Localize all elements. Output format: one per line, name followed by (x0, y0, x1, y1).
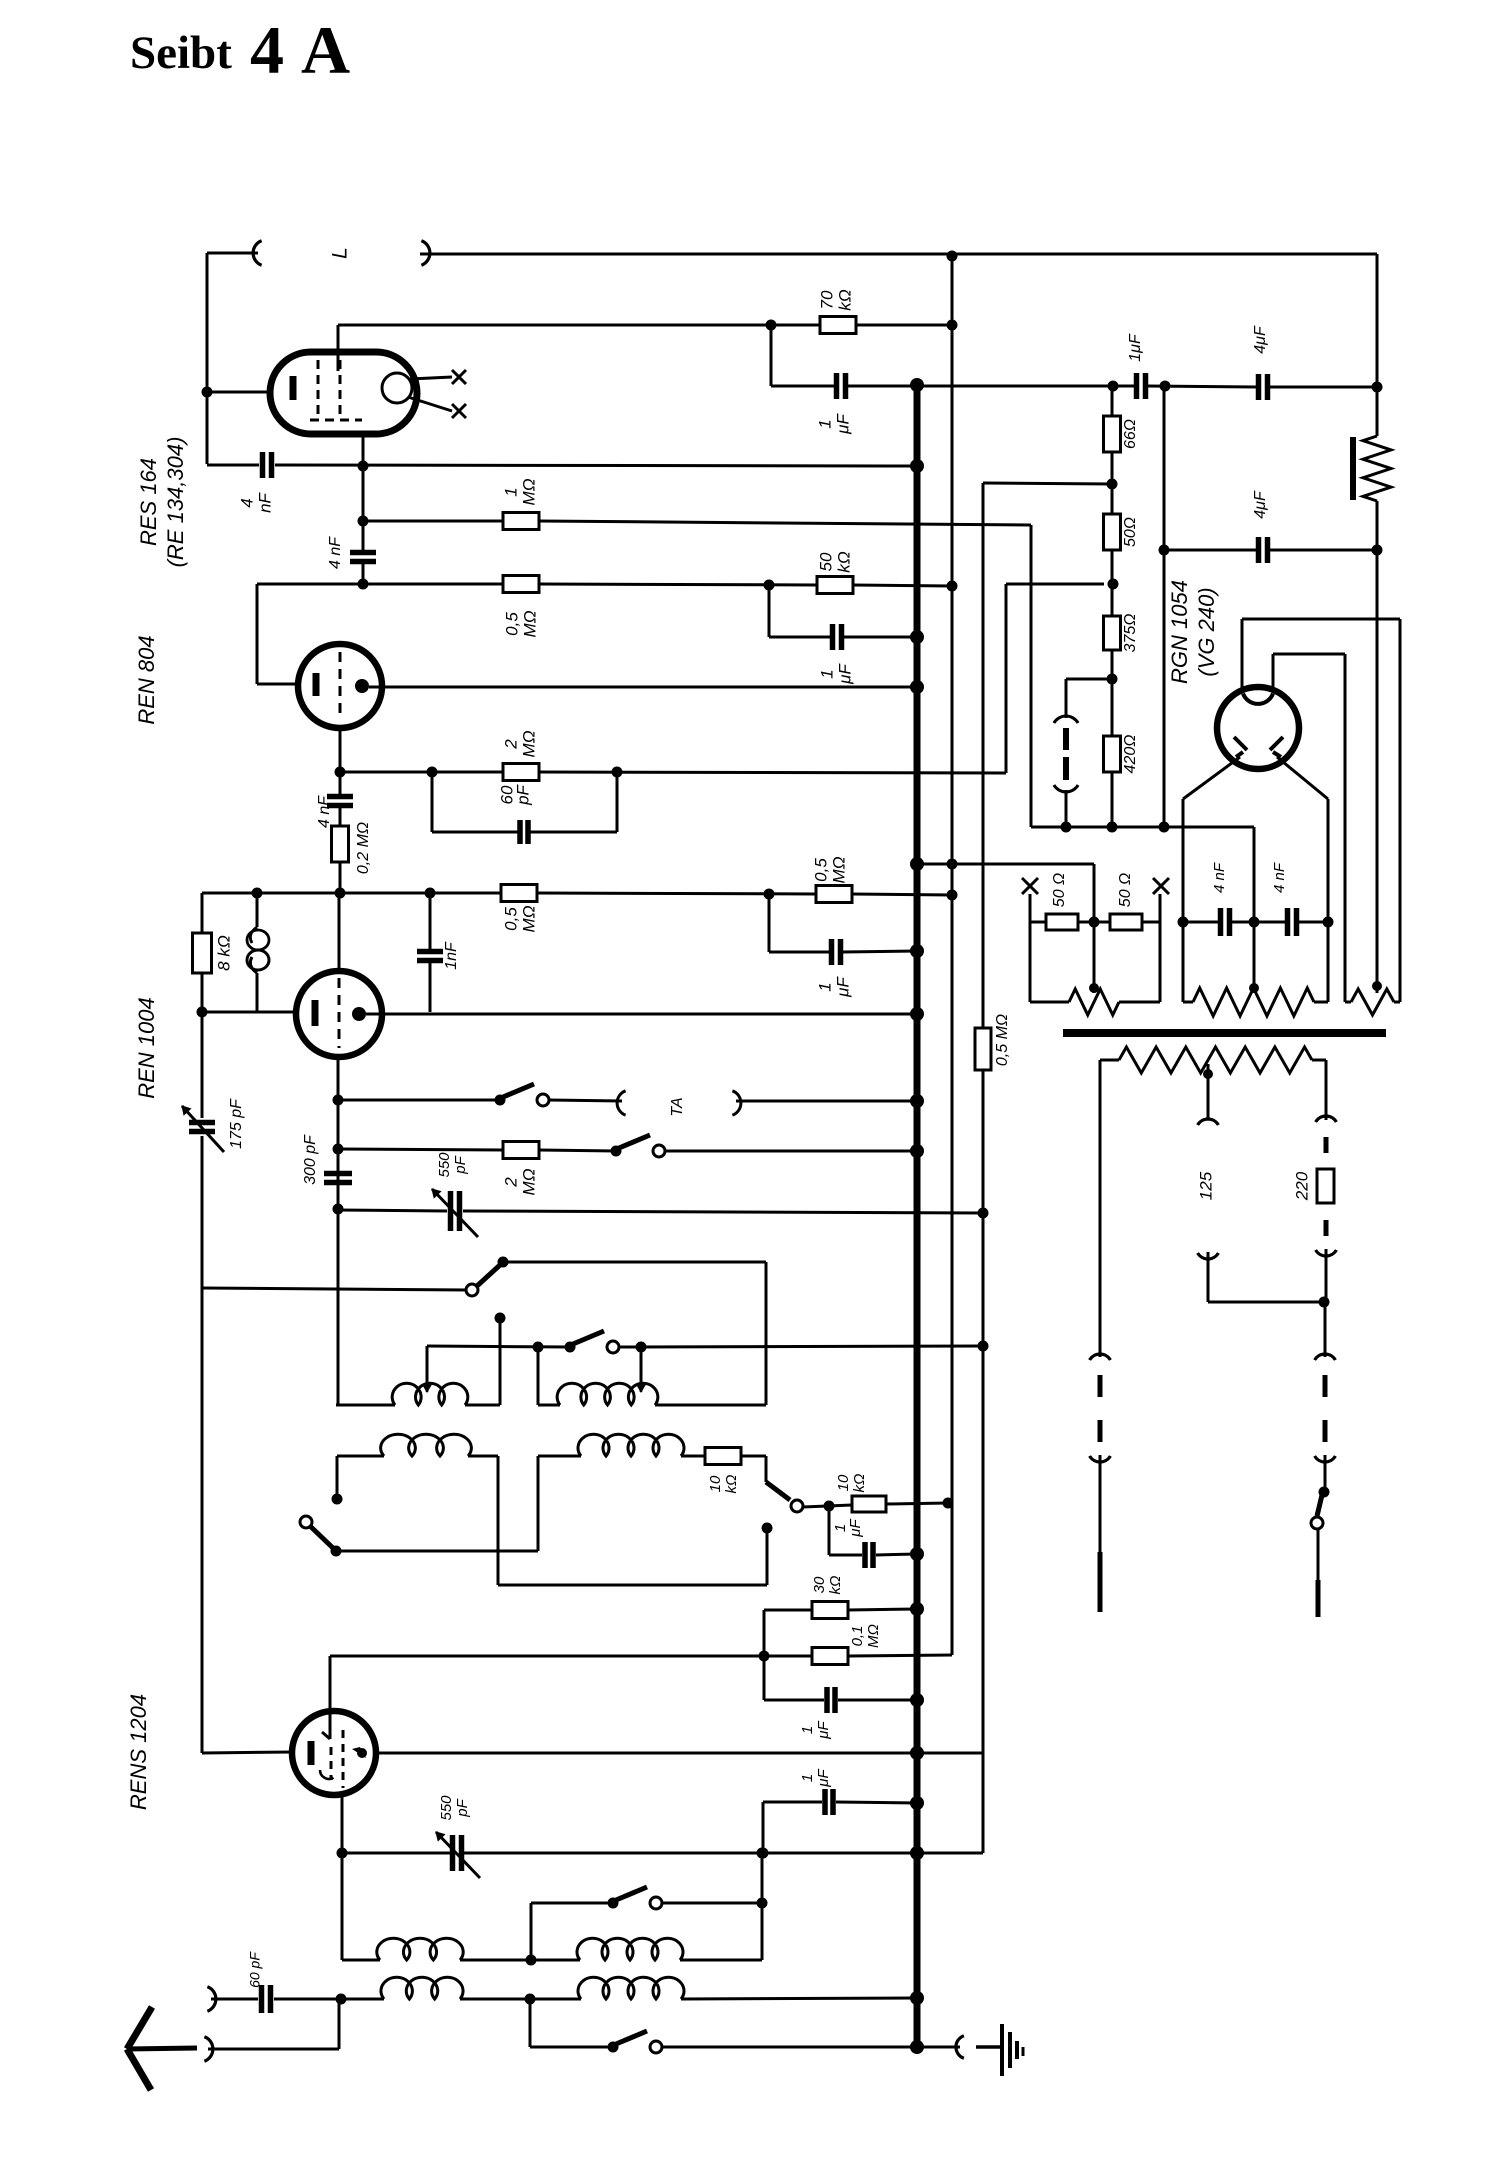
resistor 0.5M a (503, 576, 539, 593)
svg-text:MΩ: MΩ (829, 856, 848, 883)
switch 2Mb pivot (611, 1146, 622, 1157)
wire coil4 left (538, 1456, 581, 1551)
switch ant lever (477, 1265, 500, 1286)
lamp top arc (1054, 716, 1078, 723)
svg-text:kΩ: kΩ (851, 1474, 868, 1493)
label 4nF interstage1 (327, 536, 344, 569)
label VG 240 (1194, 587, 1219, 676)
svg-text:pF: pF (513, 783, 532, 805)
svg-text:pF: pF (452, 1155, 469, 1174)
svg-text:1: 1 (817, 669, 836, 678)
wire ant lower (208, 1999, 339, 2049)
wire 60pF loop (432, 772, 617, 832)
connector arc TA left (617, 1091, 626, 1115)
label 1uF rens b (799, 1768, 832, 1787)
wire y584 left drop (257, 584, 298, 684)
fuse 220 (1317, 1169, 1334, 1203)
node x1164 y550 (1159, 545, 1170, 556)
tube RES164 cathode bar (290, 376, 297, 400)
mains right plug pin b (1323, 1420, 1328, 1442)
svg-text:MΩ: MΩ (519, 478, 538, 505)
tube REN804 envelope (298, 644, 382, 728)
wire 1M row (363, 520, 503, 523)
node switch lower contact (762, 1523, 773, 1534)
wire RGN fil right (1277, 757, 1328, 799)
inductor coil4 (578, 1434, 705, 1456)
node grid REN804 (335, 767, 346, 778)
capacitor 300pF (324, 1174, 352, 1183)
mains right cord (1317, 1529, 1320, 1580)
label 50 (1122, 517, 1139, 547)
svg-text:0,5: 0,5 (811, 858, 830, 882)
connector arc ant lower (204, 2037, 213, 2061)
wire 1uF rens loop (764, 1699, 917, 1702)
wire 10k2 right (886, 1503, 948, 1504)
wire top antenna right segment (420, 253, 1377, 256)
svg-text:MΩ: MΩ (519, 1168, 538, 1195)
wire 0.5Mc to thin (852, 894, 952, 895)
node lw right (757, 1898, 768, 1909)
speaker zigzag (1363, 436, 1391, 501)
node y893 grid (335, 888, 346, 899)
tube RGN1054 anode arc (1243, 694, 1273, 704)
wire anode top link (1242, 618, 1400, 621)
wire chain c (1111, 650, 1114, 736)
bus junction a (910, 378, 924, 392)
svg-text:1: 1 (799, 1774, 816, 1782)
fuse arc a (1316, 1116, 1337, 1122)
wire thin vertical 983 (982, 483, 985, 1853)
wire 0.1M row (330, 1655, 812, 1658)
svg-text:kΩ: kΩ (834, 551, 853, 573)
pot3 wiper (1372, 981, 1382, 993)
svg-text:0,1: 0,1 (849, 1626, 866, 1647)
svg-text:REN 1004: REN 1004 (134, 997, 159, 1099)
bus junction k (910, 1602, 924, 1616)
svg-text:L: L (329, 247, 352, 259)
wire heater feed (917, 864, 1094, 922)
svg-text:kΩ: kΩ (835, 289, 854, 311)
wire 4nF mid (1232, 921, 1285, 924)
mains left plug pin b (1098, 1420, 1103, 1442)
node grid3 b (333, 1144, 344, 1155)
pot1 loop (1030, 922, 1160, 1002)
label 0.5M c (811, 856, 848, 883)
node y893 c (764, 889, 775, 900)
resistor 375 (1104, 616, 1121, 650)
node 550b mid (758, 1848, 769, 1859)
label 4nF b (1271, 862, 1288, 893)
node ren1004 left (197, 1007, 208, 1018)
connector arc ant upper (207, 1987, 216, 2011)
mains left plug arc b (1090, 1456, 1111, 1462)
resistor 0.5M b (501, 885, 537, 902)
capacitor 60pF (262, 1985, 271, 2013)
wire 1uF loop to bus (844, 636, 917, 639)
node y893 1nF (425, 888, 436, 899)
wire RENS anode (374, 1752, 983, 1755)
wire RENS cathode (202, 1752, 294, 1753)
wire RGN fil left (1183, 757, 1240, 799)
capacitor 1uF ren804 (833, 624, 842, 650)
wire tap down (1208, 1252, 1324, 1302)
label 125 (1196, 1171, 1215, 1200)
svg-text:0,5 MΩ: 0,5 MΩ (994, 1014, 1011, 1066)
label 300pF (302, 1134, 319, 1185)
label 10k a (707, 1475, 740, 1494)
switch 10k lever (766, 1482, 790, 1500)
wire 70k node down (771, 325, 834, 386)
svg-text:4 nF: 4 nF (327, 536, 344, 569)
svg-text:MΩ: MΩ (865, 1624, 882, 1648)
wire switch row y1287 (202, 1288, 467, 1290)
node coil56 (526, 1955, 537, 1966)
inductor coil6 (577, 1938, 683, 1960)
mains switch contact (1311, 1517, 1323, 1529)
mains left plug arc a (1090, 1354, 1111, 1360)
tube RES164 filament loop (382, 373, 452, 411)
svg-text:μF: μF (815, 1720, 832, 1739)
switch TA pivot (495, 1095, 506, 1106)
label RE 134 304 (163, 437, 188, 568)
svg-text:300 pF: 300 pF (302, 1134, 319, 1185)
label 420 (1122, 735, 1139, 774)
wire TA mid (549, 1100, 622, 1101)
node rail y827 (1159, 822, 1170, 833)
pin x mark lower (452, 404, 466, 418)
node mains junction (1319, 1297, 1330, 1308)
tube RGN1054 envelope (1217, 687, 1299, 769)
wire TA to bus (736, 1100, 917, 1103)
connector arc TA right (732, 1091, 741, 1115)
tube RES164 grid dashes (310, 360, 362, 420)
bus junction l (910, 1693, 924, 1707)
tap arc upper (1198, 1119, 1219, 1125)
node pot1 mid (1089, 917, 1100, 928)
node ant lever tip (498, 1257, 509, 1268)
tube REN1004 envelope (296, 971, 382, 1057)
wire 2M row (340, 771, 503, 774)
wire 4uF2 right (1270, 549, 1377, 552)
node lamp bottom (1061, 822, 1072, 833)
wire grid2 vertical (362, 521, 365, 551)
svg-text:50 Ω: 50 Ω (1051, 873, 1068, 907)
wire thin vertical 952 (947, 251, 958, 1656)
svg-text:1: 1 (815, 419, 834, 428)
capacitor 550pF variable b (436, 1832, 480, 1878)
capacitor 1nF (417, 893, 443, 1012)
wire coil78 link (460, 1998, 581, 2001)
wire right col down (1376, 550, 1379, 986)
wire 2Mb row (338, 1149, 503, 1150)
label 50k (816, 551, 853, 573)
node 4nF a (1178, 917, 1189, 928)
transformer primary (1100, 1047, 1326, 1073)
connector arc top right (421, 241, 430, 265)
wire to mains switch (1324, 1455, 1327, 1492)
wire 50a row (1030, 921, 1046, 924)
switch TA contact (537, 1094, 549, 1106)
label 1nF (443, 941, 460, 970)
wire 1uF ren1004 loop (769, 894, 917, 952)
bus junction p (910, 1991, 924, 2005)
wire 30k drop (763, 1610, 766, 1700)
mains left plug pin a (1098, 1375, 1103, 1397)
bus junction g (910, 1007, 924, 1021)
wire lead2 link (1273, 653, 1345, 656)
switch lw pivot (608, 1898, 619, 1909)
label RGN 1054 (1167, 580, 1192, 684)
label 2M b (501, 1168, 538, 1195)
svg-text:4 nF: 4 nF (1211, 862, 1228, 893)
resistor 420 (1104, 736, 1121, 772)
wire coil5 left (342, 1853, 380, 1960)
label 1uF ren1004 (815, 976, 852, 998)
label 175pF (228, 1098, 245, 1149)
capacitor 1uF ren1004 (832, 939, 841, 965)
wire 550p to right (463, 1211, 983, 1213)
mains left cord end (1098, 1552, 1103, 1612)
wire coil56 link (460, 1959, 580, 1962)
wire RGN anode lead (1241, 619, 1244, 690)
pot3 sides (1345, 619, 1400, 1002)
svg-text:375Ω: 375Ω (1122, 614, 1139, 653)
node 550b bus (911, 1847, 924, 1860)
svg-text:50Ω: 50Ω (1122, 517, 1139, 547)
mains left lead (1099, 1060, 1102, 1357)
svg-text:4 nF: 4 nF (1271, 862, 1288, 893)
svg-text:0,5: 0,5 (501, 907, 520, 931)
svg-text:66Ω: 66Ω (1122, 419, 1139, 449)
label 375 (1122, 614, 1139, 653)
wire 50k to node (853, 585, 952, 586)
svg-text:125: 125 (1196, 1171, 1215, 1200)
capacitor 4nF interstage2 (327, 772, 353, 806)
svg-text:1: 1 (501, 487, 520, 496)
mains right lead (1325, 1060, 1328, 1120)
wire top antenna left segment (207, 253, 258, 464)
wire 0.1M to corner (848, 1655, 952, 1656)
svg-text:10: 10 (835, 1474, 852, 1491)
wire 1uF to bus (848, 385, 917, 388)
tube RGN1054 filament ticks (1234, 737, 1283, 757)
wire 550b row (342, 1852, 450, 1855)
title 4 A (250, 12, 350, 88)
pot1 wiper (1089, 922, 1099, 993)
label 4nF interstage2 (316, 795, 372, 874)
node coil4 lever tip (331, 1546, 342, 1557)
svg-text:4 A: 4 A (250, 12, 350, 88)
connector arc top left (253, 241, 262, 265)
svg-text:RES 164: RES 164 (136, 458, 161, 546)
node grid3 a (333, 1095, 344, 1106)
lamp bottom arc (1054, 785, 1078, 792)
resistor 66 (1104, 416, 1121, 452)
switch 2Mb lever (619, 1135, 650, 1148)
label 1uF 10k (832, 1518, 864, 1537)
switch coil4 lever (310, 1526, 333, 1548)
label 66 (1122, 419, 1139, 449)
wire chain top (1111, 386, 1114, 416)
resistor 10k a (705, 1448, 766, 1483)
node cathode RES164 (202, 387, 213, 398)
pot2 wiper (1249, 922, 1259, 993)
wire REN1004 anode to bus (366, 1013, 917, 1016)
resistor 0.1M (812, 1648, 848, 1665)
wire 4uF2 row (1164, 549, 1256, 552)
wire 2Mb to bus (665, 1150, 917, 1153)
node 363-466 (358, 461, 369, 472)
fuse arc b (1316, 1250, 1337, 1256)
wire chain a (1111, 452, 1114, 514)
svg-text:0,2 MΩ: 0,2 MΩ (355, 822, 372, 874)
wire earth (917, 2046, 960, 2049)
resistor 50 a (1046, 914, 1078, 930)
wire 550b right (464, 1852, 983, 1855)
bus junction f (910, 944, 924, 958)
svg-text:50 Ω: 50 Ω (1117, 873, 1134, 907)
node 0.1M left (759, 1651, 770, 1662)
wire coil3 left stub (336, 1456, 339, 1499)
transformer core (1063, 1029, 1386, 1037)
label 70 kOhm (817, 289, 854, 311)
ground symbol (1002, 2024, 1023, 2076)
x terminal a (1022, 878, 1038, 922)
wire coil6 right (680, 1853, 762, 1960)
switch band1 lever (573, 1331, 604, 1344)
label TA (669, 1097, 686, 1116)
wire 1M to corner (539, 521, 1031, 827)
label 550pF b (438, 1795, 471, 1821)
wire right edge vertical (1376, 254, 1379, 436)
wire REN1004 grid top (338, 893, 341, 971)
node 10k2 right (943, 1498, 954, 1509)
svg-text:μF: μF (833, 413, 852, 435)
mains right cord end (1316, 1580, 1321, 1617)
node 1M left (358, 516, 369, 527)
wire REN1004 bottom (337, 1057, 340, 1405)
label 0.5M b (501, 905, 538, 932)
node grid RES164 (766, 320, 777, 331)
svg-text:2: 2 (501, 1177, 520, 1188)
label RES 164 (136, 458, 161, 546)
node y893 coil (252, 888, 263, 899)
svg-text:μF: μF (847, 1518, 864, 1537)
bus junction j (910, 1547, 924, 1561)
svg-text:50: 50 (816, 552, 835, 571)
svg-text:TA: TA (669, 1097, 686, 1116)
wire 4nF right (1299, 921, 1328, 924)
resistor 10k b (852, 1496, 886, 1512)
bus junction c (910, 630, 924, 644)
mains right plug arc b (1315, 1456, 1336, 1462)
wire coil2 right up (765, 1262, 768, 1405)
tap arc lower (1198, 1253, 1219, 1259)
inductor anode coil (247, 893, 269, 1012)
bus junction m (910, 1746, 924, 1760)
wire RGN lead2 (1272, 654, 1275, 691)
label 60pF (497, 783, 532, 805)
svg-text:MΩ: MΩ (519, 905, 538, 932)
wire lw switch riser (531, 1903, 613, 1960)
resistor 1M (503, 513, 539, 530)
mains right plug arc a (1315, 1354, 1336, 1360)
speaker bar (1350, 437, 1356, 500)
switch 10k contact (791, 1500, 803, 1512)
node y895 thin (947, 890, 958, 901)
tube RENS1204 envelope (292, 1711, 376, 1795)
switch lw contact (650, 1897, 662, 1909)
label 1uF rens a (799, 1720, 832, 1739)
wire REN804 anode to bus (369, 686, 917, 689)
node y386 b (1160, 381, 1171, 392)
capacitor 1uF screen (837, 373, 846, 399)
inductor coil3 (337, 1434, 498, 1456)
wire 2M right (539, 584, 1104, 773)
resistor 8k (193, 893, 212, 1012)
svg-text:kΩ: kΩ (723, 1475, 740, 1494)
svg-text:4μF: 4μF (1252, 490, 1269, 519)
label 1uF supply (1127, 333, 1144, 362)
svg-text:μF: μF (835, 663, 854, 685)
switch ant pivot contact (466, 1284, 478, 1296)
wire y584 mid (539, 584, 817, 585)
tube RENS1204 cathode bar (308, 1741, 315, 1765)
tube REN1004 cathode bar (312, 1000, 319, 1026)
wire chain bottom rail (1031, 827, 1254, 922)
node 60p right (612, 767, 623, 778)
resistor 0.5M c (816, 886, 852, 903)
label 1uF ren804 (817, 663, 854, 685)
wire REN1004 cathode (202, 1011, 296, 1014)
svg-text:(RE 134,304): (RE 134,304) (163, 437, 188, 568)
svg-text:10: 10 (707, 1475, 724, 1492)
node 550p left (333, 1204, 344, 1215)
switch ant2 contact (650, 2041, 662, 2053)
switch band1 contact (607, 1341, 619, 1353)
mains switch lever (1317, 1495, 1322, 1516)
switch TA lever (503, 1084, 534, 1097)
tube RENS1204 grid lead (322, 1656, 330, 1739)
label REN 1004 (134, 997, 159, 1099)
capacitor 4nF b (1288, 908, 1297, 936)
wire coil1 tap (423, 1346, 431, 1392)
lamp bars (1063, 728, 1069, 780)
node chain y584 (1108, 579, 1119, 590)
svg-text:220: 220 (1292, 1171, 1311, 1201)
wire coil3 right loop (498, 1456, 767, 1585)
svg-text:RENS 1204: RENS 1204 (126, 1694, 151, 1810)
svg-text:8 kΩ: 8 kΩ (214, 935, 233, 971)
bus ground rail (914, 385, 921, 2047)
label 4uF lower (1252, 490, 1269, 519)
antenna symbol (127, 2007, 197, 2090)
tube RENS1204 anode arrow (352, 1747, 367, 1758)
bus junction h (910, 1094, 924, 1108)
inductor coil2 (557, 1383, 766, 1405)
label 1M (501, 478, 538, 505)
capacitor 1uF rens a (827, 1687, 835, 1713)
wire speaker down (1376, 501, 1379, 550)
wire fil left (1182, 799, 1185, 922)
svg-text:MΩ: MΩ (520, 610, 539, 637)
svg-text:4 nF: 4 nF (316, 795, 333, 828)
svg-text:4: 4 (237, 498, 256, 507)
tube REN1004 grid dash (338, 978, 341, 1048)
label 60pF ant (247, 1951, 263, 1988)
wire chain b (1111, 550, 1114, 616)
capacitor 4nF interstage1 (350, 553, 376, 562)
